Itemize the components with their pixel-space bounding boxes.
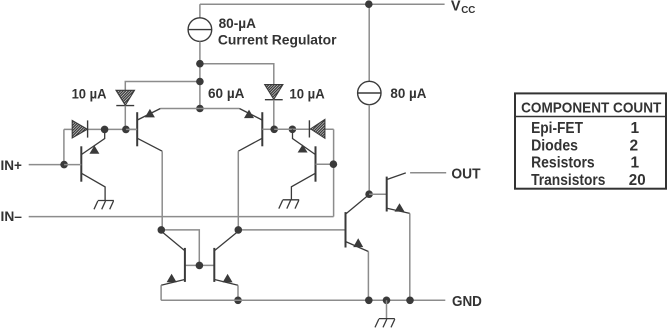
wire: right 10uA branch [200,64,274,85]
wire: output base stub [369,193,387,195]
wire: mirror input row [161,230,199,266]
wire: Q8 emitter drop [409,213,411,300]
label: VCC [451,0,475,16]
arrow: Q6 emitter [223,274,233,283]
wire: ground stub [386,300,388,318]
arrow: Q8 emitter [395,203,405,211]
svg-text:60 µA: 60 µA [208,86,245,101]
wire: right diode cathode lead [273,100,275,130]
wire: IN- riser [333,129,335,216]
diode D3: right 10uA source [265,85,283,100]
diode D1: left clamp [72,120,87,137]
transistor Q5: mirror left NPN [161,231,185,285]
wire: VCC top rail [200,3,445,5]
wire: ground rail [161,299,445,301]
svg-text:IN+: IN+ [1,158,23,173]
diode D4: right clamp [309,119,325,138]
wire: right base rail y129 [274,128,333,130]
svg-text:10 µA: 10 µA [289,86,325,101]
node: mirror input [158,226,166,234]
wire: 80uA source top lead [368,4,370,81]
node: Q7 emitter on rail [365,297,373,305]
transistor Q1: outer-left input PNP [64,129,105,200]
wire: center column upper [199,64,201,109]
node: VCC rail tap [365,0,373,8]
arrow: Q4 emitter [298,145,308,153]
arrow: Q2 emitter [145,109,155,118]
ground: Q1 collector [94,201,114,210]
wire: regulator top lead [199,4,201,18]
wire: Q2 collector drop [161,151,163,230]
node: ground symbol tap [383,297,391,305]
node: mirror output [235,226,243,234]
wire: Q3 collector drop [237,151,239,230]
transistor Q7: driver NPN [346,195,370,252]
svg-text:COMPONENT COUNT: COMPONENT COUNT [521,99,661,116]
wire: IN- rail [29,216,334,218]
transistor Q3: inner-right PNP [200,109,274,152]
wire: OUT lead [410,172,446,174]
label: Transistors row [531,172,646,189]
svg-text:Current Regulator: Current Regulator [218,33,337,48]
wire: regulator bottom to node [199,41,201,63]
node: Q1 emitter junction [101,126,109,134]
svg-text:IN–: IN– [1,209,23,224]
ground: output stage [375,319,395,328]
wire: 80uA source bottom lead [368,105,370,195]
wire: IN+ riser [63,129,65,164]
node: Q4 base tap [330,160,338,168]
label: Resistors row [531,155,639,172]
wire: Q7 emitter drop [367,252,369,301]
arrow: Q7 emitter [353,238,363,247]
wire: mirror output to driver base [238,229,345,231]
svg-text:V: V [451,0,461,15]
svg-text:OUT: OUT [451,167,480,183]
transistor Q6: mirror right NPN [214,231,238,285]
svg-text:Transistors: Transistors [531,172,605,189]
svg-text:GND: GND [452,294,482,310]
label: 80-µA Current Regulator [218,16,337,47]
svg-text:20: 20 [629,172,646,189]
wire: left diode cathode lead [124,106,126,130]
wire: left 10uA branch [125,82,200,91]
arrow: Q5 emitter [167,274,177,283]
table: component count box [515,93,666,188]
svg-text:2: 2 [630,138,639,155]
ground: Q4 collector [279,200,299,209]
node: mirror base [196,262,204,270]
current regulator U1 [188,18,212,42]
svg-text:Diodes: Diodes [531,138,578,155]
node: right diode junction [270,126,278,134]
diode D2: left 10uA source [116,90,135,105]
svg-text:Epi-FET: Epi-FET [531,120,583,137]
arrow: Q3 emitter [244,110,254,119]
wire: Q5 emitter drop [160,285,162,300]
wire: IN+ stub [29,164,64,166]
node: left branch tap [196,78,204,86]
svg-text:80 µA: 80 µA [390,86,426,101]
svg-text:10 µA: 10 µA [72,86,107,101]
wire: mirror base tie [185,264,214,266]
svg-text:Resistors: Resistors [531,155,595,172]
transistor Q4: outer-right input PNP [291,129,333,199]
svg-text:CC: CC [461,5,475,16]
wire: left base rail y129 [64,128,137,130]
svg-text:1: 1 [631,155,640,172]
label: Diodes row [531,138,638,155]
node: Q8 emitter on rail [406,297,414,305]
node: left diode junction [122,126,130,134]
transistor Q2: inner-left PNP [126,109,200,152]
transistor Q8: output NPN [387,173,410,214]
wire: Q6 emitter drop [237,285,239,300]
arrow: Q1 emitter [89,146,99,154]
node: IN+ junction [60,161,68,169]
node: regulator output [196,60,204,68]
node: driver collector node [365,190,373,198]
svg-text:80-µA: 80-µA [219,16,257,31]
svg-text:1: 1 [631,120,640,137]
current source I2: 80uA [358,81,381,104]
node: Q6 emitter to rail [234,297,242,305]
node: Q4 emitter junction [289,126,297,134]
label: Epi-FET row [531,120,639,137]
node: diff pair emitter [196,105,204,113]
